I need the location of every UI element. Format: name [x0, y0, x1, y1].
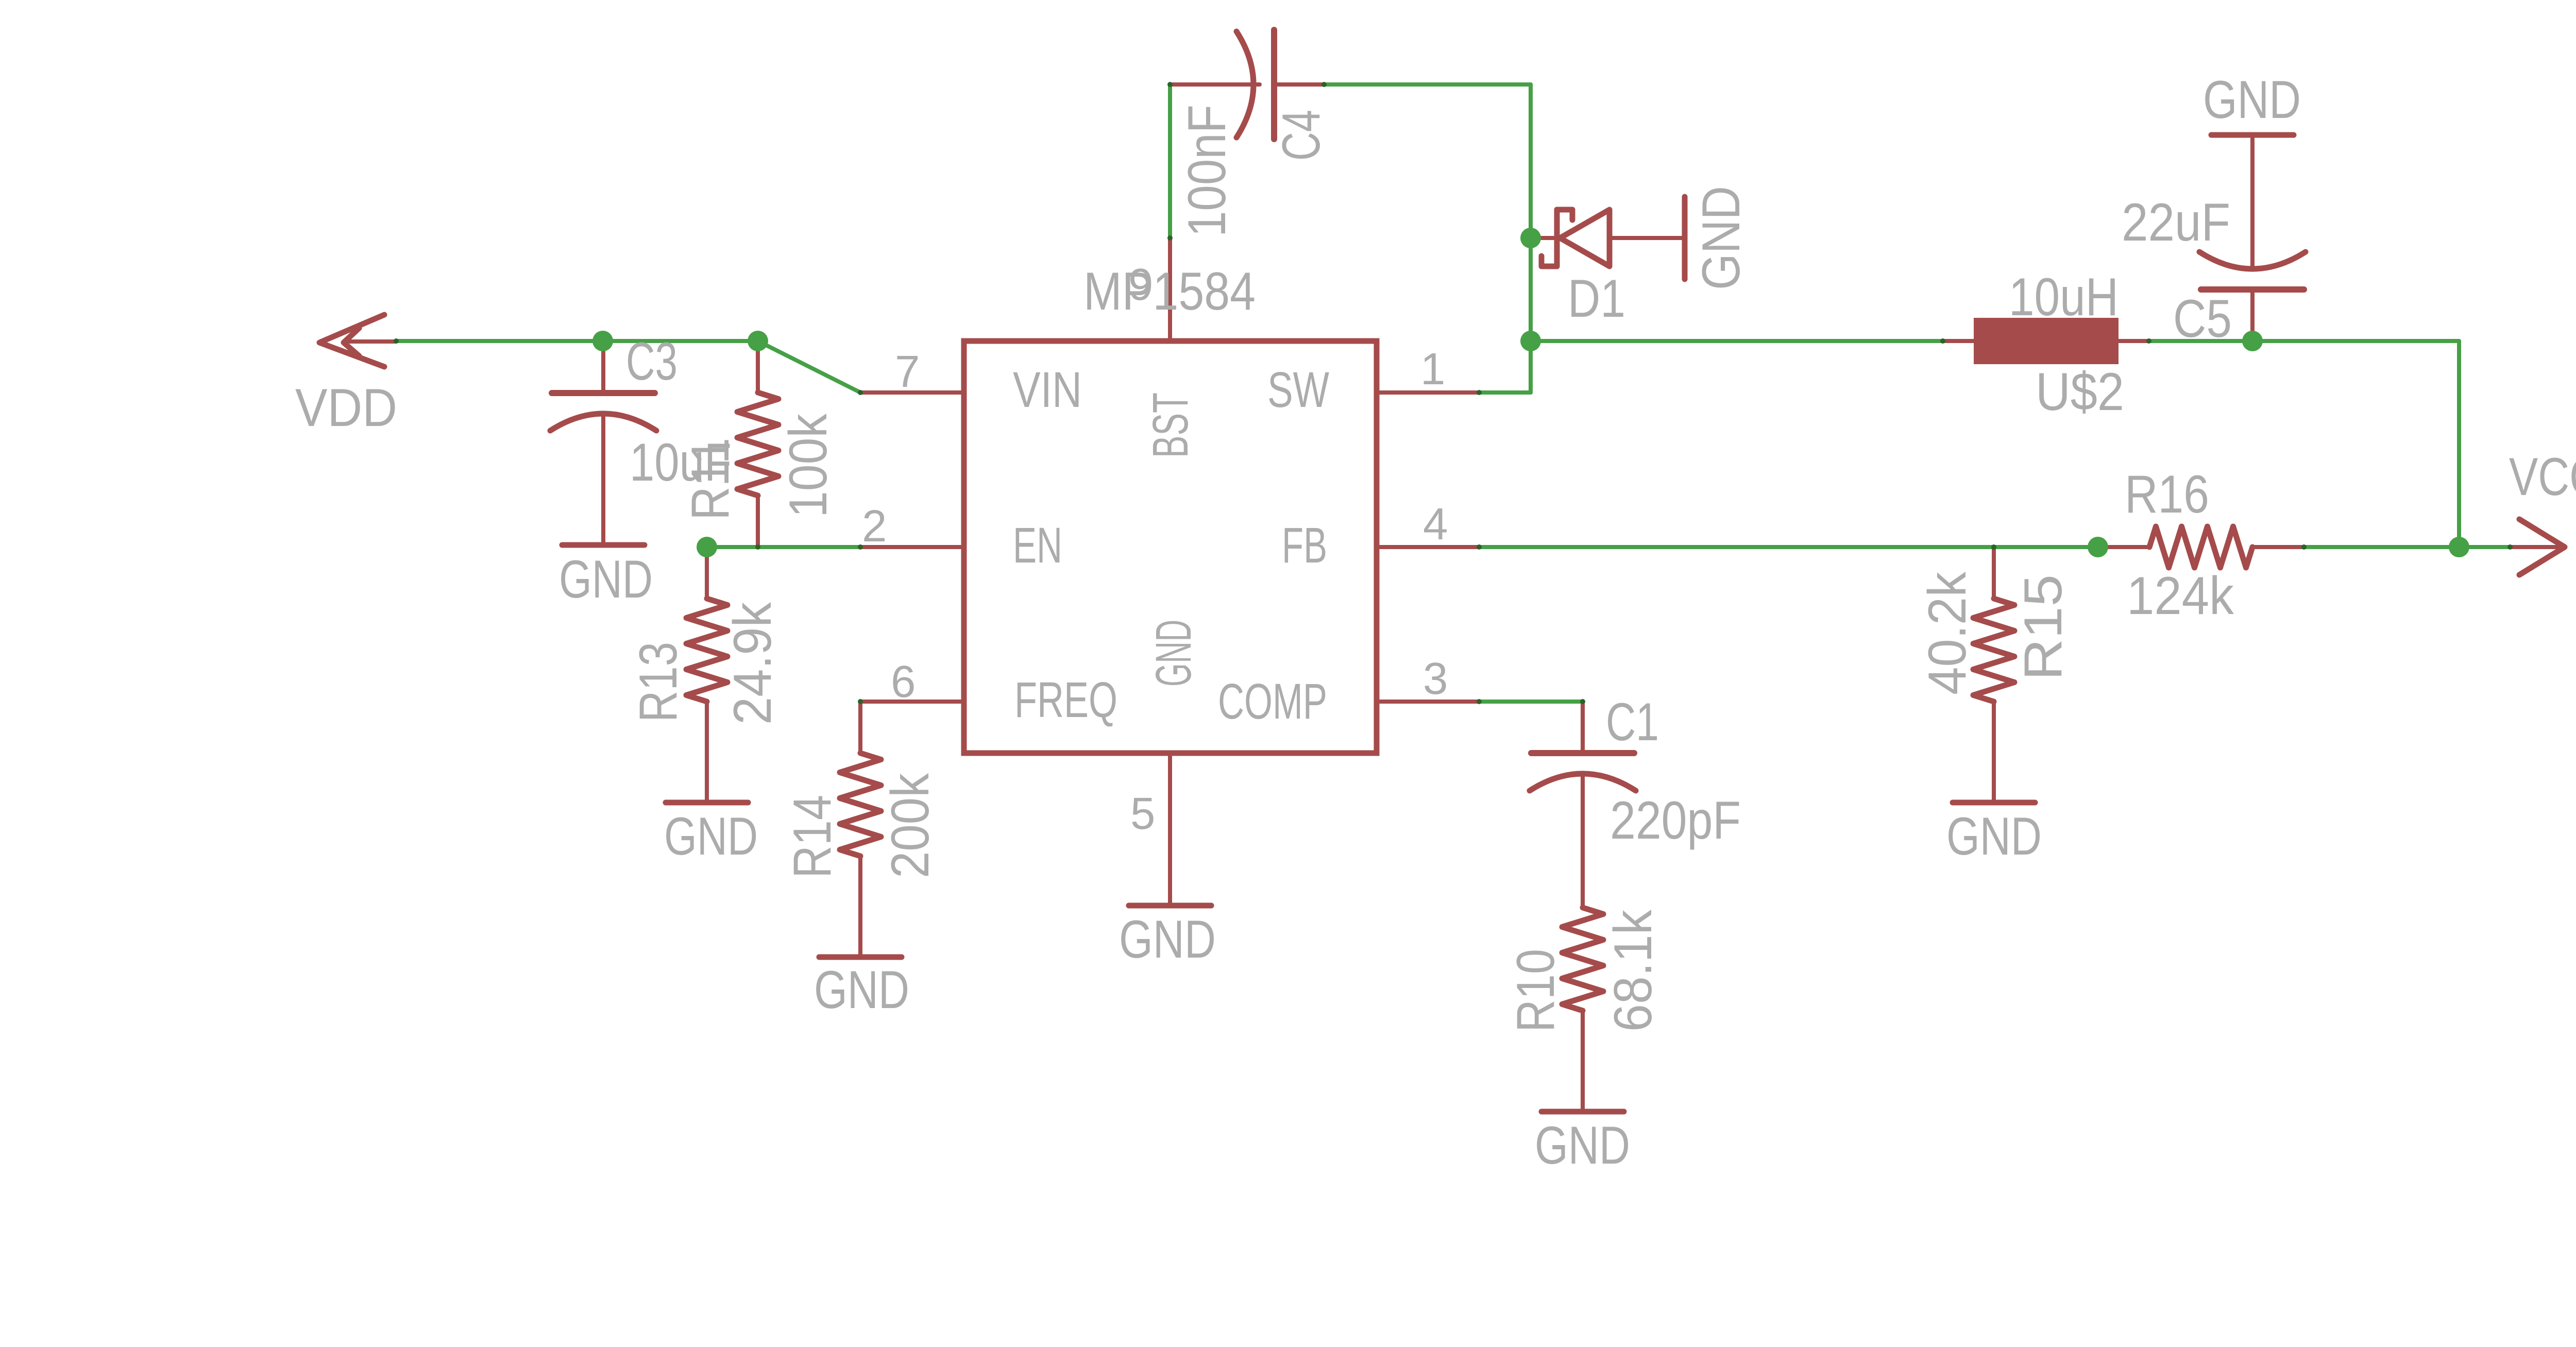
pin 3 COMP stub — [1377, 700, 1479, 704]
pin end dot SW — [1477, 390, 1482, 395]
svg-text:GND: GND — [1119, 910, 1216, 969]
svg-text:D1: D1 — [1568, 269, 1625, 329]
svg-text:C3: C3 — [626, 332, 677, 391]
junction node SW/output — [1520, 331, 1541, 351]
svg-text:R16: R16 — [2125, 465, 2209, 524]
wire inductor to C5 to VCC corner — [2149, 339, 2459, 343]
pin end dot COMP — [1477, 699, 1482, 704]
pin end dot R11 bottom — [755, 544, 760, 550]
pin end dot C4 right — [1321, 82, 1327, 87]
pin end dot R16 right — [2301, 544, 2307, 550]
svg-text:R11: R11 — [681, 438, 740, 520]
svg-text:3: 3 — [1423, 654, 1448, 704]
resistor R10 — [1562, 856, 1603, 1062]
svg-text:9: 9 — [1128, 260, 1153, 310]
svg-text:10uH: 10uH — [2009, 267, 2119, 327]
junction node R16 left — [2088, 537, 2108, 557]
svg-text:R13: R13 — [629, 642, 688, 722]
wire FB net — [1479, 545, 2098, 549]
svg-text:C4: C4 — [1272, 110, 1331, 161]
pin 7 VIN stub — [860, 390, 964, 395]
pin end dot VDD — [394, 338, 399, 344]
svg-text:R14: R14 — [783, 795, 842, 878]
svg-text:SW: SW — [1267, 362, 1329, 418]
resistor R11 — [737, 341, 778, 547]
capacitor C4 — [1170, 30, 1324, 139]
wire SW pin to riser — [1479, 390, 1531, 395]
svg-text:7: 7 — [895, 347, 920, 397]
svg-text:100k: 100k — [778, 413, 838, 518]
svg-text:1: 1 — [1420, 344, 1445, 394]
svg-text:VIN: VIN — [1013, 362, 1082, 418]
svg-text:EN: EN — [1013, 517, 1062, 573]
junction node C5 — [2242, 331, 2263, 351]
svg-text:GND: GND — [814, 960, 909, 1020]
svg-text:200k: 200k — [880, 773, 940, 878]
svg-text:U$2: U$2 — [2036, 362, 2124, 422]
svg-text:COMP: COMP — [1218, 673, 1327, 729]
svg-text:22uF: 22uF — [2122, 193, 2230, 252]
svg-text:BST: BST — [1142, 393, 1198, 458]
ground symbol for C3 — [562, 496, 645, 545]
wire VCC corner vertical — [2457, 341, 2461, 547]
wire C4 right to SW riser — [1324, 82, 1531, 87]
pin 9 BST stub — [1168, 238, 1172, 341]
op-amp-style IC U1 MP1584 body — [964, 341, 1377, 753]
capacitor C5 — [2199, 138, 2306, 341]
pin end dot C1 corner — [1580, 699, 1585, 704]
svg-text:VCC: VCC — [2509, 447, 2576, 507]
svg-text:C5: C5 — [2173, 289, 2232, 349]
svg-text:R10: R10 — [1506, 949, 1566, 1032]
svg-text:68.1k: 68.1k — [1603, 909, 1663, 1032]
resistor R13 — [686, 547, 727, 753]
resistor R15 — [1973, 547, 2014, 753]
wire diagonal R11 node to VIN pin — [758, 341, 860, 393]
resistor R16 — [2098, 526, 2304, 568]
ground symbol for R15 — [1953, 753, 2035, 803]
svg-text:220pF: 220pF — [1610, 791, 1741, 850]
junction node D1 cathode — [1520, 228, 1541, 248]
pin end dot inductor right — [2146, 338, 2151, 344]
pin 6 FREQ stub — [860, 700, 964, 704]
ground symbol for R13 — [666, 753, 748, 803]
svg-text:GND: GND — [1145, 620, 1201, 687]
ground symbol for C5 (above) — [2211, 132, 2294, 138]
pin end dot FREQ corner — [858, 699, 863, 704]
svg-text:GND: GND — [1691, 186, 1751, 290]
svg-text:C1: C1 — [1606, 692, 1659, 752]
junction node R11 top — [748, 331, 768, 351]
svg-text:MP1584: MP1584 — [1083, 262, 1256, 321]
pin 5 GND stub — [1168, 753, 1172, 856]
inductor U$2 — [1943, 318, 2149, 364]
diode D1 (Schottky) — [1531, 210, 1682, 266]
svg-text:GND: GND — [664, 807, 758, 866]
svg-text:4: 4 — [1423, 499, 1448, 549]
ground symbol for D1 (rotated) — [1682, 197, 1688, 279]
svg-text:5: 5 — [1130, 789, 1155, 839]
wire BST vertical leg to C4 — [1168, 84, 1172, 238]
capacitor C3 — [550, 341, 656, 496]
ground symbol for R10 — [1541, 1062, 1624, 1112]
pin end dot VCC — [2507, 544, 2513, 550]
junction node VCC corner — [2449, 537, 2469, 557]
svg-text:FB: FB — [1282, 517, 1327, 573]
capacitor C1 — [1530, 702, 1636, 856]
svg-text:FREQ: FREQ — [1014, 672, 1117, 728]
wire SW node to inductor — [1531, 339, 1943, 343]
pin end dot C4 left — [1167, 82, 1173, 87]
pin end dot R15 top — [1991, 544, 1996, 550]
svg-text:GND: GND — [1946, 807, 2042, 866]
wire COMP to C1 — [1479, 700, 1583, 704]
svg-text:GND: GND — [2203, 70, 2301, 130]
svg-text:40.2k: 40.2k — [1918, 571, 1977, 695]
svg-text:2: 2 — [862, 501, 887, 551]
pin 1 SW stub — [1377, 390, 1479, 395]
pin 4 FB stub — [1377, 545, 1479, 549]
svg-text:VDD: VDD — [295, 378, 397, 438]
wire EN net from R13 node to EN pin — [707, 545, 860, 549]
wire VDD to C3 to R11 node (net VDD top row) — [396, 339, 758, 343]
svg-text:R15: R15 — [2013, 574, 2073, 680]
svg-text:GND: GND — [1535, 1116, 1630, 1175]
svg-text:124k: 124k — [2127, 566, 2234, 626]
svg-text:100nF: 100nF — [1177, 105, 1237, 237]
pin end dot BST — [1167, 235, 1173, 241]
pin end dot EN — [858, 544, 863, 550]
ground symbol for R14 — [819, 908, 902, 957]
junction node EN/R13 — [697, 537, 717, 557]
svg-text:GND: GND — [559, 550, 653, 609]
pin end dot inductor left — [1940, 338, 1945, 344]
resistor R14 — [840, 702, 881, 908]
junction node C3/VDD — [592, 331, 613, 351]
supply symbol VDD arrow — [319, 315, 396, 367]
supply symbol VCC arrow — [2510, 519, 2565, 575]
wire SW riser vertical — [1529, 84, 1533, 393]
pin 2 EN stub — [860, 545, 964, 549]
pin end dot VIN — [858, 390, 863, 395]
ground symbol for IC pin 5 — [1129, 856, 1211, 906]
wire R16 to VCC arrow — [2304, 545, 2510, 549]
svg-text:24.9k: 24.9k — [723, 602, 783, 725]
svg-text:6: 6 — [891, 657, 916, 707]
pin end dot FB — [1477, 544, 1482, 550]
